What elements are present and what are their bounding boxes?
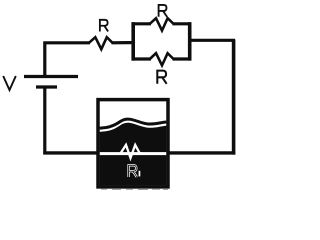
parallel network top edge wire left part [132,22,152,25]
wire right rail down [232,40,236,155]
wire R1 to parallel box [112,41,135,44]
wire bottom right to container [166,151,235,154]
parallel network top edge wire right part [173,22,192,25]
heater resistor RL zigzag (white) [121,145,144,158]
label R of R1 [100,20,108,32]
wire bottom left to container [43,151,100,154]
parallel network bottom edge wire right part [173,57,192,60]
parallel network bottom edge wire left part [132,57,152,60]
wire battery bottom down [43,87,46,154]
label R of R3 [157,71,166,84]
liquid surface wave line [100,119,167,128]
wire parallel box to right rail [189,39,235,42]
battery long plate [24,75,78,78]
resistor R2 (top branch) zigzag [150,18,174,30]
label V [3,76,16,90]
label RL subscript tick [139,171,141,177]
parallel network left edge wire [131,22,135,60]
battery V [24,77,78,88]
liquid fill [100,123,167,186]
parallel network right edge wire [188,22,192,60]
wire inside container (white over liquid) [100,152,166,155]
label RL (outlined white) [129,165,137,177]
label R of R2 [159,5,167,17]
battery short plate [36,85,57,88]
wire battery top to top-left corner to R1 [45,43,90,76]
resistor R3 (bottom branch) zigzag [150,53,174,65]
scan speckle dots below container [101,189,168,190]
container (calorimeter vessel) outline [98,100,168,187]
resistor R1 zigzag [89,37,113,49]
